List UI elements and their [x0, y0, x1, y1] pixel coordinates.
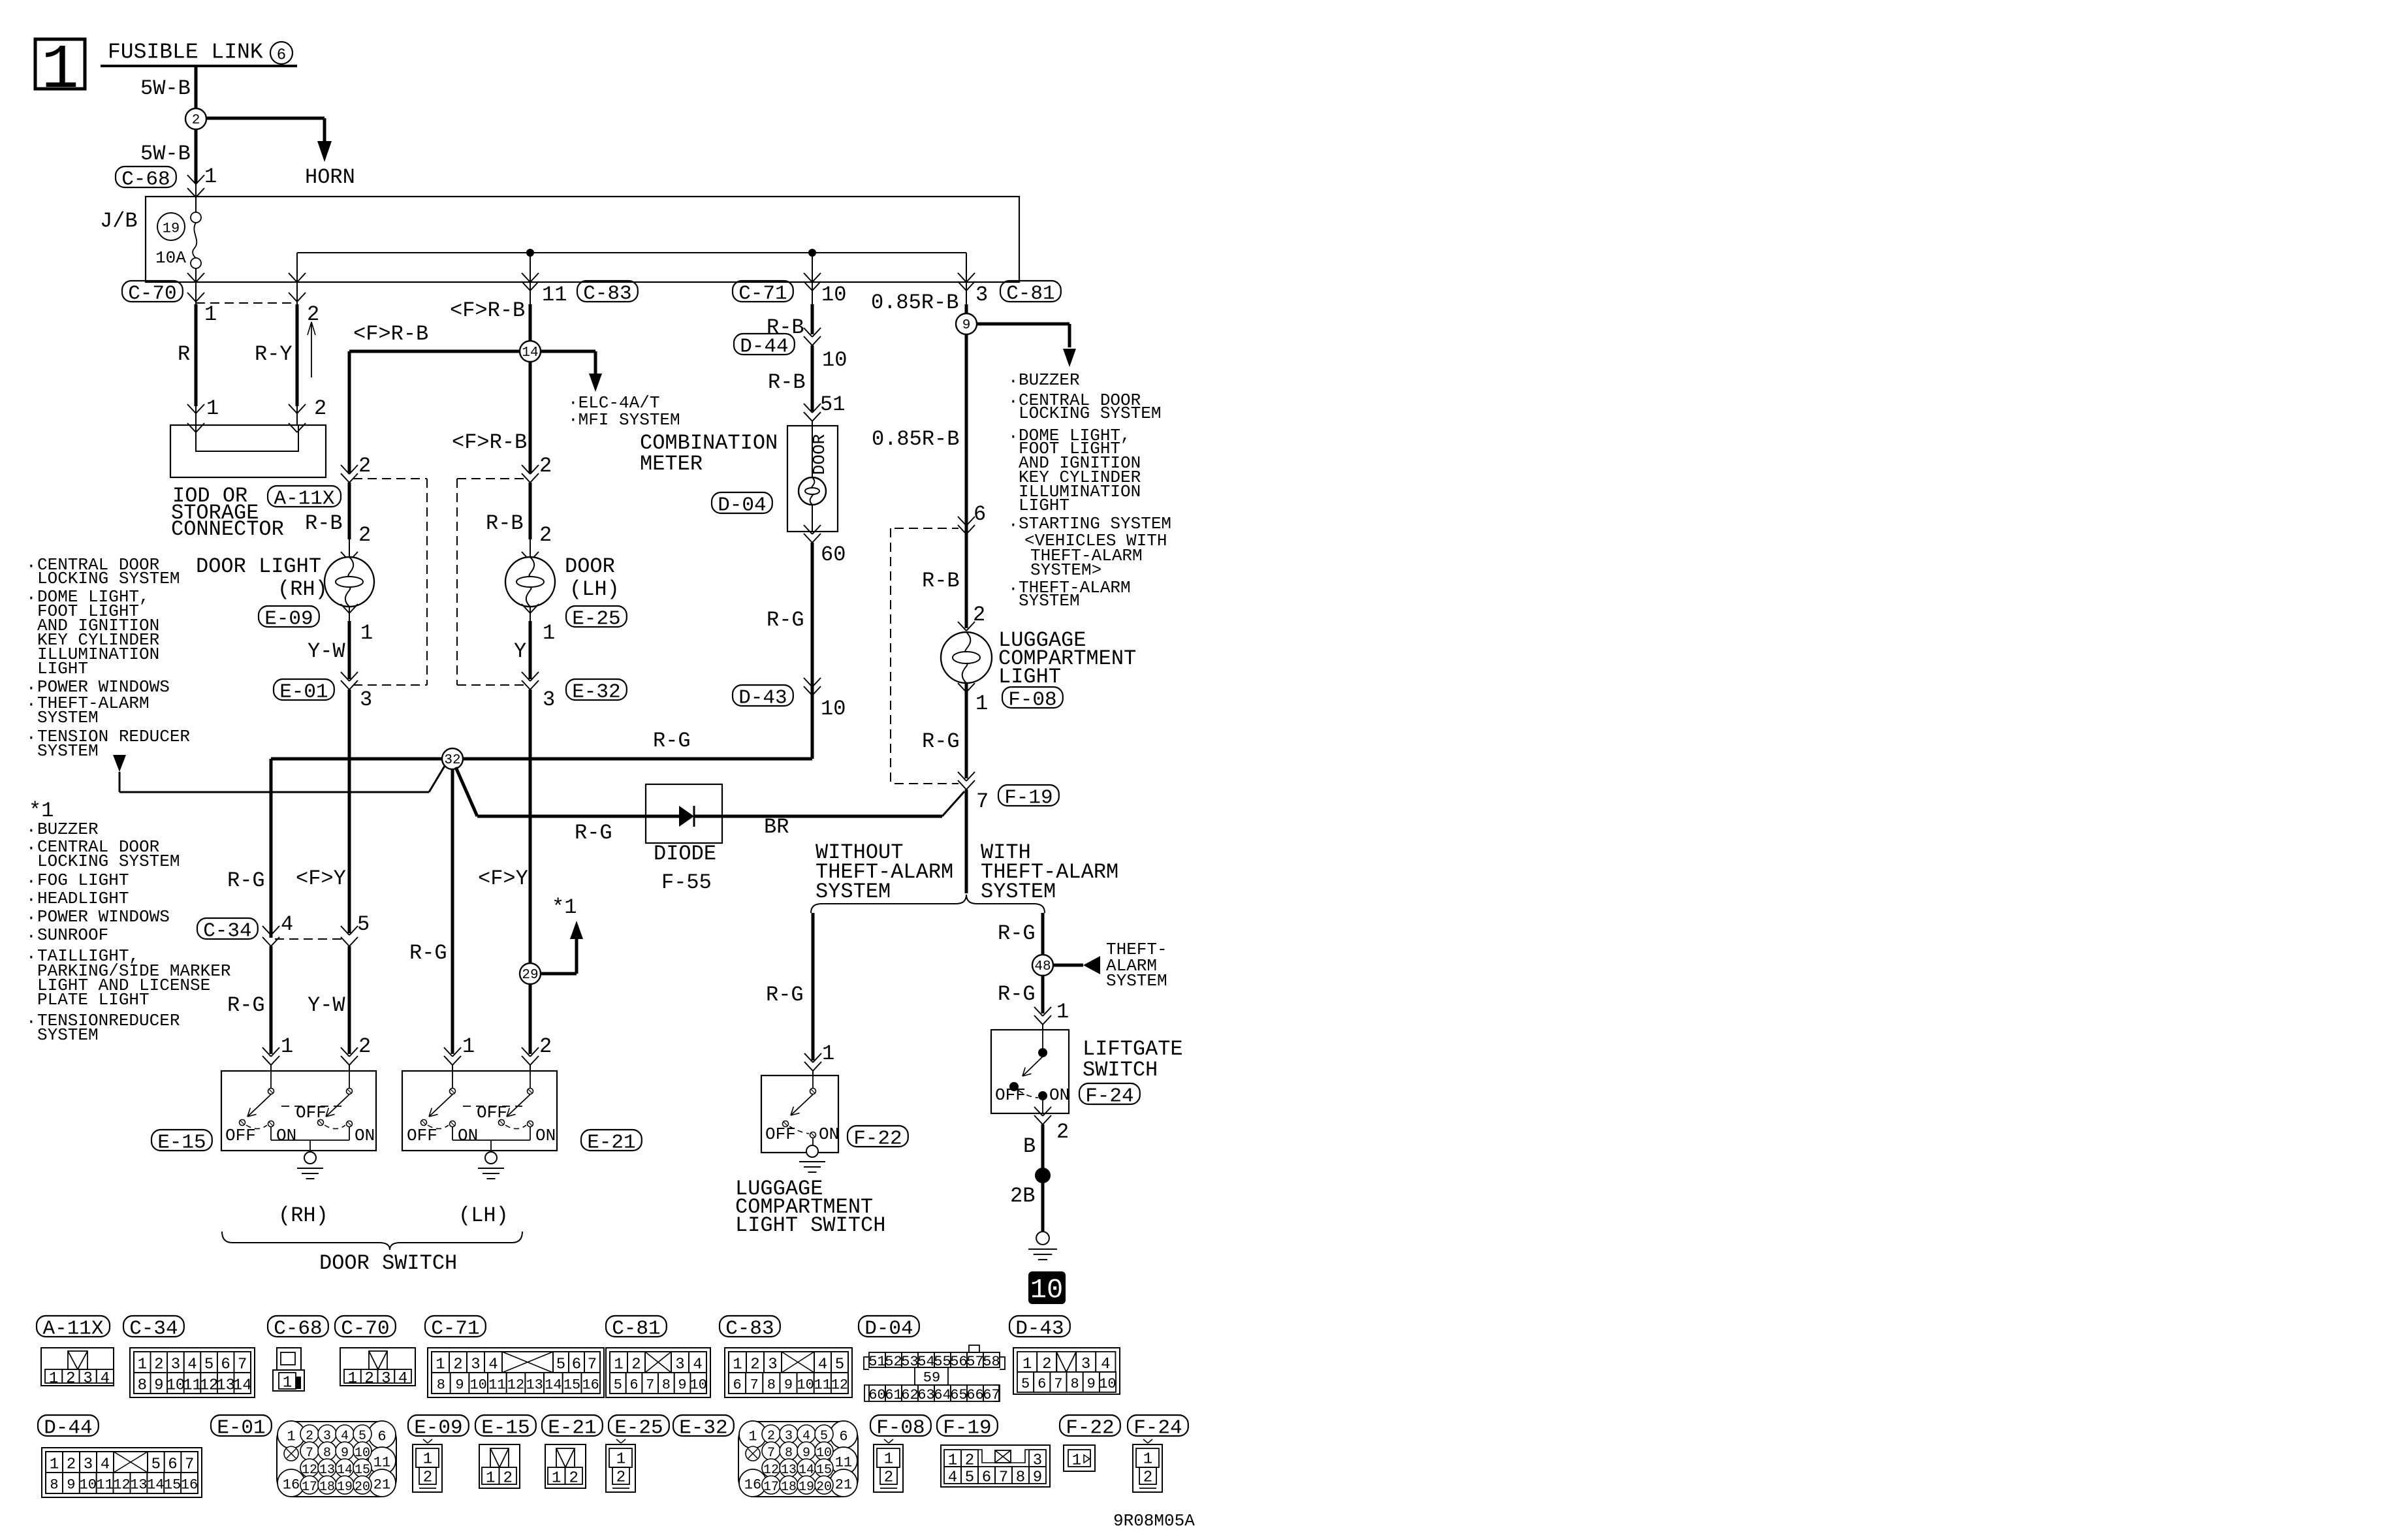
svg-text:·: · — [26, 908, 37, 928]
svg-text:2: 2 — [569, 1469, 578, 1487]
svg-text:9: 9 — [1087, 1376, 1096, 1392]
svg-text:2: 2 — [453, 1356, 462, 1373]
svg-text:11: 11 — [183, 1377, 202, 1394]
svg-text:1: 1 — [552, 1469, 561, 1487]
svg-text:60: 60 — [821, 543, 846, 567]
svg-text:A-11X: A-11X — [42, 1318, 103, 1341]
svg-text:1: 1 — [360, 621, 373, 645]
svg-text:15: 15 — [164, 1477, 181, 1493]
svg-text:FOG LIGHT: FOG LIGHT — [37, 870, 129, 890]
svg-text:6: 6 — [839, 1429, 848, 1445]
svg-text:2: 2 — [154, 1356, 163, 1373]
svg-text:C-34: C-34 — [203, 920, 251, 943]
svg-text:48: 48 — [1034, 959, 1051, 974]
svg-text:3: 3 — [360, 688, 372, 712]
svg-text:R-G: R-G — [766, 983, 804, 1007]
svg-text:62: 62 — [901, 1387, 918, 1403]
svg-text:·: · — [26, 728, 37, 748]
svg-text:R-G: R-G — [998, 921, 1036, 946]
svg-text:R-G: R-G — [998, 982, 1036, 1006]
svg-text:10: 10 — [689, 1377, 706, 1394]
svg-text:2: 2 — [539, 454, 552, 478]
svg-text:E-32: E-32 — [572, 681, 620, 704]
svg-text:METER: METER — [640, 452, 703, 476]
svg-text:6: 6 — [221, 1356, 230, 1373]
svg-text:7: 7 — [238, 1356, 247, 1373]
svg-text:·: · — [26, 556, 37, 576]
svg-text:R-G: R-G — [653, 729, 691, 753]
svg-text:R-G: R-G — [767, 608, 804, 632]
svg-text:(LH): (LH) — [569, 577, 620, 601]
svg-text:OFF: OFF — [477, 1103, 507, 1123]
svg-text:7: 7 — [185, 1456, 194, 1473]
svg-text:ON: ON — [819, 1124, 839, 1144]
svg-text:12: 12 — [507, 1377, 524, 1394]
svg-text:BUZZER: BUZZER — [37, 820, 99, 839]
svg-text:10: 10 — [1030, 1274, 1063, 1305]
svg-text:F-08: F-08 — [876, 1417, 925, 1440]
svg-text:2: 2 — [503, 1469, 513, 1487]
svg-text:1: 1 — [41, 35, 79, 106]
svg-text:0.85R-B: 0.85R-B — [871, 291, 958, 315]
svg-text:R-G: R-G — [922, 729, 960, 754]
svg-text:15: 15 — [563, 1377, 580, 1394]
svg-text:E-01: E-01 — [279, 681, 328, 704]
svg-text:LIGHT: LIGHT — [1019, 496, 1069, 515]
svg-text:R-B: R-B — [768, 370, 806, 394]
svg-text:1: 1 — [884, 1450, 893, 1468]
svg-text:<F>Y: <F>Y — [478, 867, 528, 891]
svg-text:2: 2 — [314, 396, 326, 421]
svg-text:5: 5 — [965, 1469, 974, 1486]
svg-text:C-34: C-34 — [129, 1318, 178, 1341]
svg-text:2: 2 — [192, 113, 200, 128]
svg-text:LOCKING SYSTEM: LOCKING SYSTEM — [37, 569, 180, 588]
svg-text:SUNROOF: SUNROOF — [37, 925, 108, 945]
svg-text:10: 10 — [822, 348, 847, 372]
svg-text:C-83: C-83 — [725, 1318, 774, 1341]
svg-text:3: 3 — [171, 1356, 180, 1373]
svg-text:2: 2 — [1143, 1469, 1152, 1486]
svg-text:66: 66 — [966, 1387, 983, 1403]
svg-text:16: 16 — [582, 1377, 599, 1394]
svg-text:6: 6 — [572, 1356, 581, 1373]
svg-text:1: 1 — [204, 302, 217, 327]
svg-text:C-83: C-83 — [583, 283, 631, 306]
svg-text:SYSTEM: SYSTEM — [37, 741, 99, 761]
svg-text:C-81: C-81 — [1006, 283, 1054, 306]
svg-text:13: 13 — [526, 1377, 543, 1394]
svg-text:9: 9 — [455, 1377, 464, 1394]
svg-text:D-44: D-44 — [44, 1417, 92, 1440]
svg-text:R-G: R-G — [575, 821, 612, 845]
svg-text:F-08: F-08 — [1008, 689, 1056, 712]
svg-text:18: 18 — [781, 1480, 797, 1495]
svg-text:5W-B: 5W-B — [140, 76, 191, 101]
svg-text:2: 2 — [750, 1356, 759, 1373]
svg-text:5: 5 — [357, 912, 370, 936]
svg-text:6: 6 — [629, 1377, 638, 1394]
svg-text:63: 63 — [917, 1387, 934, 1403]
svg-text:PLATE LIGHT: PLATE LIGHT — [37, 990, 150, 1010]
svg-text:2: 2 — [66, 1370, 75, 1388]
svg-text:1: 1 — [1072, 1452, 1081, 1469]
svg-text:1: 1 — [281, 1034, 293, 1059]
svg-text:1: 1 — [50, 1456, 59, 1473]
svg-text:61: 61 — [885, 1387, 902, 1403]
svg-text:C-71: C-71 — [431, 1318, 479, 1341]
svg-text:·: · — [26, 948, 37, 967]
svg-text:E-01: E-01 — [217, 1417, 265, 1440]
svg-text:3: 3 — [471, 1356, 480, 1373]
svg-text:C-70: C-70 — [341, 1318, 389, 1341]
svg-text:E-25: E-25 — [614, 1417, 663, 1440]
svg-text:4: 4 — [101, 1370, 110, 1388]
svg-text:0.85R-B: 0.85R-B — [872, 427, 959, 451]
svg-text:4: 4 — [101, 1456, 110, 1473]
svg-text:21: 21 — [373, 1477, 390, 1493]
svg-text:4: 4 — [488, 1356, 498, 1373]
svg-text:6: 6 — [1038, 1376, 1046, 1392]
svg-text:1: 1 — [49, 1370, 58, 1388]
svg-text:2: 2 — [1042, 1356, 1051, 1373]
svg-text:SYSTEM>: SYSTEM> — [1030, 560, 1101, 580]
svg-text:OFF: OFF — [995, 1085, 1026, 1105]
svg-text:65: 65 — [950, 1387, 967, 1403]
svg-text:7: 7 — [588, 1356, 597, 1373]
svg-text:E-32: E-32 — [679, 1417, 727, 1440]
svg-text:DOOR: DOOR — [565, 554, 615, 579]
svg-text:F-55: F-55 — [661, 870, 712, 895]
svg-text:8: 8 — [1016, 1469, 1025, 1486]
svg-text:9: 9 — [67, 1477, 75, 1493]
svg-text:8: 8 — [138, 1377, 147, 1394]
svg-text:3: 3 — [381, 1370, 390, 1388]
svg-text:1: 1 — [423, 1450, 432, 1468]
svg-text:10: 10 — [1099, 1376, 1116, 1392]
svg-text:6: 6 — [982, 1469, 991, 1486]
svg-text:ON: ON — [355, 1126, 375, 1145]
svg-text:4: 4 — [187, 1356, 197, 1373]
svg-text:C-70: C-70 — [128, 283, 176, 306]
svg-text:3: 3 — [543, 688, 555, 712]
svg-text:14: 14 — [545, 1377, 562, 1394]
svg-text:C-81: C-81 — [612, 1318, 660, 1341]
svg-text:2: 2 — [884, 1469, 893, 1486]
svg-text:51: 51 — [820, 392, 845, 417]
svg-text:J/B: J/B — [100, 209, 138, 233]
svg-text:58: 58 — [983, 1354, 1000, 1370]
svg-text:19: 19 — [799, 1480, 814, 1495]
svg-text:(RH): (RH) — [277, 577, 328, 601]
svg-text:5: 5 — [614, 1377, 622, 1394]
svg-text:Y-W: Y-W — [308, 639, 345, 663]
svg-text:7: 7 — [646, 1377, 654, 1394]
svg-text:·: · — [26, 1012, 37, 1032]
svg-text:7: 7 — [750, 1377, 759, 1394]
svg-text:LOCKING SYSTEM: LOCKING SYSTEM — [37, 852, 180, 871]
svg-text:4: 4 — [281, 912, 293, 936]
svg-text:6: 6 — [168, 1456, 177, 1473]
svg-text:29: 29 — [522, 968, 538, 983]
svg-text:R: R — [178, 342, 190, 366]
svg-text:C-68: C-68 — [274, 1318, 322, 1341]
svg-text:OFF: OFF — [765, 1124, 796, 1144]
svg-text:21: 21 — [835, 1477, 852, 1493]
svg-text:2B: 2B — [1010, 1184, 1035, 1208]
svg-text:1: 1 — [436, 1356, 445, 1373]
svg-text:3: 3 — [975, 283, 988, 307]
svg-text:3: 3 — [768, 1356, 777, 1373]
svg-text:17: 17 — [302, 1480, 317, 1495]
svg-text:HORN: HORN — [305, 165, 355, 189]
svg-text:POWER WINDOWS: POWER WINDOWS — [37, 907, 170, 927]
svg-text:A-11X: A-11X — [274, 488, 334, 511]
svg-text:8: 8 — [1070, 1376, 1079, 1392]
svg-text:16: 16 — [181, 1477, 198, 1493]
svg-text:BUZZER: BUZZER — [1019, 370, 1080, 390]
svg-text:7: 7 — [1054, 1376, 1062, 1392]
svg-text:1: 1 — [1056, 1000, 1069, 1024]
svg-text:HEADLIGHT: HEADLIGHT — [37, 889, 129, 908]
svg-text:2: 2 — [423, 1469, 432, 1486]
svg-text:11: 11 — [96, 1477, 113, 1493]
svg-text:SYSTEM: SYSTEM — [37, 708, 99, 727]
svg-text:D-04: D-04 — [718, 494, 766, 517]
svg-text:11: 11 — [488, 1377, 505, 1394]
svg-text:10: 10 — [821, 697, 846, 721]
svg-text:F-19: F-19 — [1004, 787, 1053, 810]
svg-text:1: 1 — [733, 1356, 742, 1373]
svg-text:10: 10 — [80, 1477, 97, 1493]
svg-text:·: · — [1008, 515, 1019, 535]
svg-text:11: 11 — [542, 283, 567, 307]
svg-text:DIODE: DIODE — [654, 842, 716, 866]
svg-text:LOCKING SYSTEM: LOCKING SYSTEM — [1019, 404, 1161, 423]
svg-text:59: 59 — [923, 1370, 940, 1386]
svg-text:OFF: OFF — [225, 1126, 256, 1145]
svg-text:8: 8 — [437, 1377, 445, 1394]
svg-text:1: 1 — [616, 1450, 626, 1468]
svg-text:7: 7 — [999, 1469, 1008, 1486]
svg-text:3: 3 — [83, 1370, 92, 1388]
svg-text:64: 64 — [934, 1387, 951, 1403]
svg-text:5: 5 — [556, 1356, 565, 1373]
svg-text:6: 6 — [377, 1429, 386, 1445]
svg-text:F-22: F-22 — [1066, 1417, 1114, 1440]
svg-text:·: · — [26, 695, 37, 714]
svg-text:1: 1 — [462, 1034, 475, 1059]
svg-text:2: 2 — [1056, 1120, 1069, 1144]
svg-text:2: 2 — [364, 1370, 373, 1388]
svg-text:DOOR SWITCH: DOOR SWITCH — [319, 1251, 457, 1275]
svg-text:10: 10 — [166, 1377, 185, 1394]
svg-text:3: 3 — [675, 1356, 684, 1373]
svg-text:9: 9 — [962, 318, 971, 333]
svg-text:6: 6 — [733, 1377, 741, 1394]
svg-text:·: · — [26, 872, 37, 891]
svg-text:R-B: R-B — [486, 511, 524, 535]
svg-text:F-22: F-22 — [853, 1128, 902, 1151]
svg-text:D-43: D-43 — [1015, 1318, 1064, 1341]
svg-text:OFF: OFF — [407, 1126, 437, 1145]
svg-text:D-44: D-44 — [740, 336, 788, 359]
svg-text:F-24: F-24 — [1085, 1085, 1133, 1108]
svg-text:7: 7 — [976, 789, 989, 814]
svg-text:E-21: E-21 — [548, 1417, 596, 1440]
svg-text:SYSTEM: SYSTEM — [37, 1025, 99, 1045]
svg-text:57: 57 — [966, 1354, 983, 1370]
svg-text:11: 11 — [373, 1455, 390, 1471]
svg-text:Y: Y — [514, 639, 526, 663]
svg-text:10: 10 — [797, 1377, 814, 1394]
svg-text:D-43: D-43 — [738, 687, 787, 710]
svg-text:4: 4 — [398, 1370, 407, 1388]
svg-text:1: 1 — [486, 1469, 495, 1487]
svg-text:10: 10 — [469, 1377, 486, 1394]
svg-text:1: 1 — [283, 1374, 292, 1392]
svg-text:60: 60 — [868, 1387, 885, 1403]
svg-text:·: · — [26, 890, 37, 910]
svg-text:16: 16 — [283, 1477, 300, 1493]
svg-text:8: 8 — [767, 1377, 776, 1394]
svg-text:18: 18 — [319, 1480, 335, 1495]
svg-text:(LH): (LH) — [458, 1203, 509, 1228]
svg-text:4: 4 — [693, 1356, 702, 1373]
svg-text:8: 8 — [662, 1377, 671, 1394]
svg-text:1: 1 — [975, 692, 988, 716]
svg-text:9: 9 — [1033, 1469, 1042, 1486]
svg-text:R-B: R-B — [922, 569, 960, 593]
svg-text:2: 2 — [307, 302, 319, 327]
svg-text:SYSTEM: SYSTEM — [816, 880, 891, 904]
svg-text:9: 9 — [678, 1377, 686, 1394]
svg-text:10: 10 — [821, 283, 846, 307]
svg-text:2: 2 — [67, 1456, 76, 1473]
svg-text:SYSTEM: SYSTEM — [1106, 971, 1167, 991]
svg-text:BR: BR — [764, 815, 789, 839]
svg-text:4: 4 — [1101, 1356, 1110, 1373]
svg-text:·: · — [1008, 392, 1019, 411]
svg-text:14: 14 — [522, 345, 538, 360]
svg-text:·: · — [1008, 372, 1019, 391]
svg-text:DOOR LIGHT: DOOR LIGHT — [196, 554, 321, 579]
svg-text:SYSTEM: SYSTEM — [981, 880, 1056, 904]
svg-text:R-B: R-B — [305, 511, 343, 535]
svg-text:ON: ON — [1049, 1085, 1069, 1105]
svg-text:LIGHT: LIGHT — [37, 659, 88, 678]
svg-text:<F>R-B: <F>R-B — [353, 322, 428, 346]
svg-text:<F>R-B: <F>R-B — [450, 298, 525, 323]
svg-text:20: 20 — [816, 1480, 832, 1495]
svg-text:B: B — [1023, 1134, 1036, 1158]
svg-text:32: 32 — [444, 753, 460, 768]
svg-text:R-G: R-G — [409, 941, 447, 965]
svg-text:E-09: E-09 — [414, 1417, 462, 1440]
svg-text:13: 13 — [216, 1377, 235, 1394]
svg-text:FUSIBLE LINK: FUSIBLE LINK — [108, 40, 263, 65]
svg-text:9R08M05A: 9R08M05A — [1113, 1511, 1195, 1530]
svg-text:E-15: E-15 — [157, 1132, 206, 1155]
svg-text:67: 67 — [983, 1387, 1000, 1403]
svg-text:10A: 10A — [155, 248, 186, 268]
svg-text:LIGHT SWITCH: LIGHT SWITCH — [735, 1213, 885, 1237]
svg-text:ON: ON — [276, 1126, 296, 1145]
svg-text:R-Y: R-Y — [255, 342, 293, 366]
svg-text:F-19: F-19 — [943, 1417, 991, 1440]
svg-text:·MFI SYSTEM: ·MFI SYSTEM — [568, 410, 680, 430]
svg-text:·: · — [26, 838, 37, 858]
svg-text:C-68: C-68 — [121, 168, 170, 191]
svg-text:1: 1 — [1143, 1450, 1152, 1468]
svg-text:2: 2 — [631, 1356, 641, 1373]
svg-text:2: 2 — [539, 1034, 552, 1059]
svg-text:2: 2 — [616, 1469, 626, 1486]
svg-text:11: 11 — [835, 1455, 852, 1471]
svg-text:SYSTEM: SYSTEM — [1019, 591, 1080, 611]
svg-text:8: 8 — [50, 1477, 58, 1493]
svg-text:3: 3 — [84, 1456, 93, 1473]
svg-text:E-09: E-09 — [264, 608, 313, 631]
svg-text:5: 5 — [835, 1356, 844, 1373]
svg-text:9: 9 — [154, 1377, 163, 1394]
svg-text:14: 14 — [233, 1377, 252, 1394]
svg-text:ON: ON — [535, 1126, 556, 1145]
svg-text:56: 56 — [950, 1354, 967, 1370]
svg-text:1: 1 — [348, 1370, 357, 1388]
svg-text:3: 3 — [1081, 1356, 1090, 1373]
svg-text:20: 20 — [355, 1480, 370, 1495]
svg-text:Y-W: Y-W — [308, 993, 345, 1017]
svg-text:2: 2 — [358, 454, 371, 478]
svg-text:1: 1 — [204, 165, 217, 189]
svg-text:1: 1 — [614, 1356, 623, 1373]
svg-text:51: 51 — [868, 1354, 885, 1370]
svg-text:12: 12 — [113, 1477, 130, 1493]
svg-text:ON: ON — [458, 1126, 478, 1145]
svg-text:1: 1 — [287, 1429, 295, 1445]
svg-text:R-G: R-G — [227, 993, 265, 1017]
svg-text:E-21: E-21 — [587, 1132, 635, 1155]
svg-text:16: 16 — [744, 1477, 761, 1493]
svg-text:52: 52 — [885, 1354, 902, 1370]
svg-text:19: 19 — [163, 221, 180, 237]
svg-text:6: 6 — [277, 46, 286, 64]
svg-text:11: 11 — [814, 1377, 831, 1394]
svg-text:E-15: E-15 — [481, 1417, 530, 1440]
svg-text:1: 1 — [822, 1042, 834, 1066]
svg-text:SWITCH: SWITCH — [1083, 1058, 1158, 1082]
svg-text:DOOR: DOOR — [810, 434, 829, 475]
svg-text:1: 1 — [1022, 1356, 1032, 1373]
svg-text:9: 9 — [784, 1377, 793, 1394]
svg-text:·: · — [26, 927, 37, 946]
svg-text:<F>Y: <F>Y — [296, 867, 346, 891]
svg-text:5: 5 — [151, 1456, 161, 1473]
svg-text:·: · — [26, 588, 37, 608]
svg-text:·: · — [26, 821, 37, 840]
svg-text:LIGHT: LIGHT — [998, 665, 1061, 689]
svg-text:F-24: F-24 — [1133, 1417, 1182, 1440]
svg-text:5W-B: 5W-B — [140, 142, 191, 166]
svg-text:2: 2 — [358, 1034, 371, 1059]
svg-text:·: · — [1008, 427, 1019, 447]
svg-text:1: 1 — [543, 621, 555, 645]
svg-text:1: 1 — [138, 1356, 147, 1373]
svg-text:4: 4 — [818, 1356, 827, 1373]
svg-text:(RH): (RH) — [278, 1203, 328, 1228]
svg-text:19: 19 — [337, 1480, 353, 1495]
